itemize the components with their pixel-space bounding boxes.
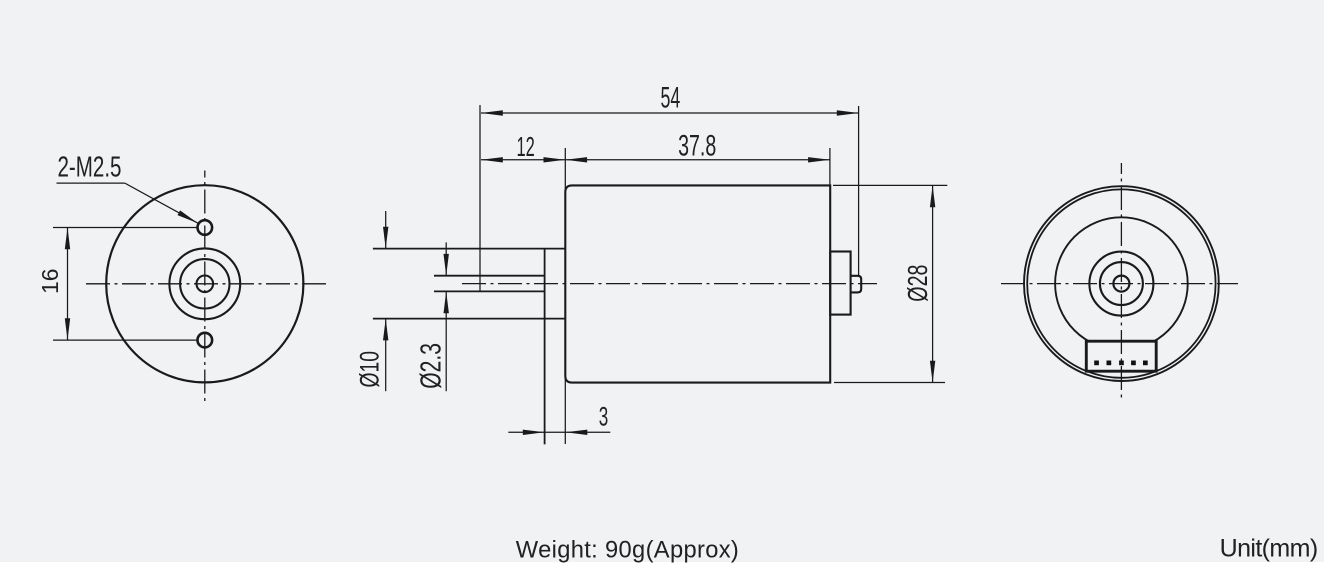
rear boss	[830, 252, 850, 315]
rear ring circle	[1100, 262, 1143, 305]
screw hole bottom M2.5	[198, 333, 213, 348]
side view centerline	[462, 283, 877, 285]
leader 2-M2.5 diagonal with arrow	[125, 183, 198, 223]
rear shaft circle	[1113, 276, 1129, 292]
rear outer circle	[1024, 186, 1219, 381]
motor body	[565, 185, 830, 382]
rear view vertical centerline	[1120, 163, 1122, 399]
rear shaft stub	[851, 276, 862, 293]
shaft top line + Ø2.3 extension	[434, 275, 545, 277]
rear endbell circle	[1055, 217, 1188, 350]
dim 16 dimension line	[67, 228, 69, 341]
svg-text:Unit(mm): Unit(mm)	[1220, 535, 1319, 563]
svg-text:Ø2.3: Ø2.3	[416, 343, 448, 389]
body front face extension line	[564, 148, 566, 444]
dim 12 line	[481, 159, 565, 161]
rear view horizontal centerline	[1001, 283, 1238, 285]
svg-text:37.8: 37.8	[678, 129, 716, 162]
svg-text:2-M2.5: 2-M2.5	[58, 151, 122, 183]
dim 3 right arrow	[566, 431, 611, 433]
boss bottom line + Ø10 extension	[373, 318, 565, 320]
dim 16 extension line top	[53, 227, 198, 229]
shaft tip face + 54/12 extension line	[479, 105, 481, 291]
svg-text:3: 3	[599, 401, 609, 431]
svg-text:12: 12	[517, 131, 535, 162]
connector box	[1086, 341, 1156, 371]
screw hole top M2.5	[198, 220, 213, 235]
svg-text:16: 16	[37, 269, 63, 294]
dim 3 left arrow	[508, 431, 544, 433]
dim Ø2.3 lower arrow	[445, 291, 447, 391]
boss top line + Ø10 extension	[373, 248, 565, 250]
boss front face + 3 extension line	[544, 249, 546, 445]
svg-text:Ø28: Ø28	[902, 265, 933, 302]
dim 16 extension line bottom	[53, 339, 198, 341]
dim 37.8 line	[565, 159, 830, 161]
leader 2-M2.5 horizontal	[57, 182, 125, 184]
dim Ø28 extension top	[833, 184, 947, 186]
dim Ø28 line	[932, 185, 934, 382]
rear stub extension line (54)	[858, 106, 860, 276]
dim 54 line	[481, 112, 859, 114]
front view boss circle Ø10	[169, 248, 240, 319]
shaft bottom line + Ø2.3 extension	[434, 290, 545, 292]
front view ring Ø7	[180, 259, 229, 308]
front view outer circle (Ø28 body)	[106, 185, 303, 382]
dim Ø2.3 upper arrow	[445, 242, 447, 275]
front view vertical centerline	[204, 171, 206, 406]
front view shaft circle Ø2.3	[197, 276, 214, 293]
connector pins	[1094, 361, 1148, 366]
svg-text:54: 54	[661, 82, 681, 115]
dim 3 middle segment	[545, 431, 566, 433]
dim Ø28 extension bottom	[834, 382, 945, 384]
svg-text:Ø10: Ø10	[355, 351, 385, 388]
dim Ø10 lower arrow	[385, 319, 387, 392]
rear lip circle	[1027, 189, 1215, 377]
svg-text:Weight: 90g(Approx): Weight: 90g(Approx)	[516, 538, 739, 564]
dim Ø10 upper arrow	[385, 211, 387, 249]
front view horizontal centerline	[86, 283, 329, 285]
body rear extension line (37.8)	[829, 148, 831, 186]
rear boss circle	[1089, 252, 1153, 316]
